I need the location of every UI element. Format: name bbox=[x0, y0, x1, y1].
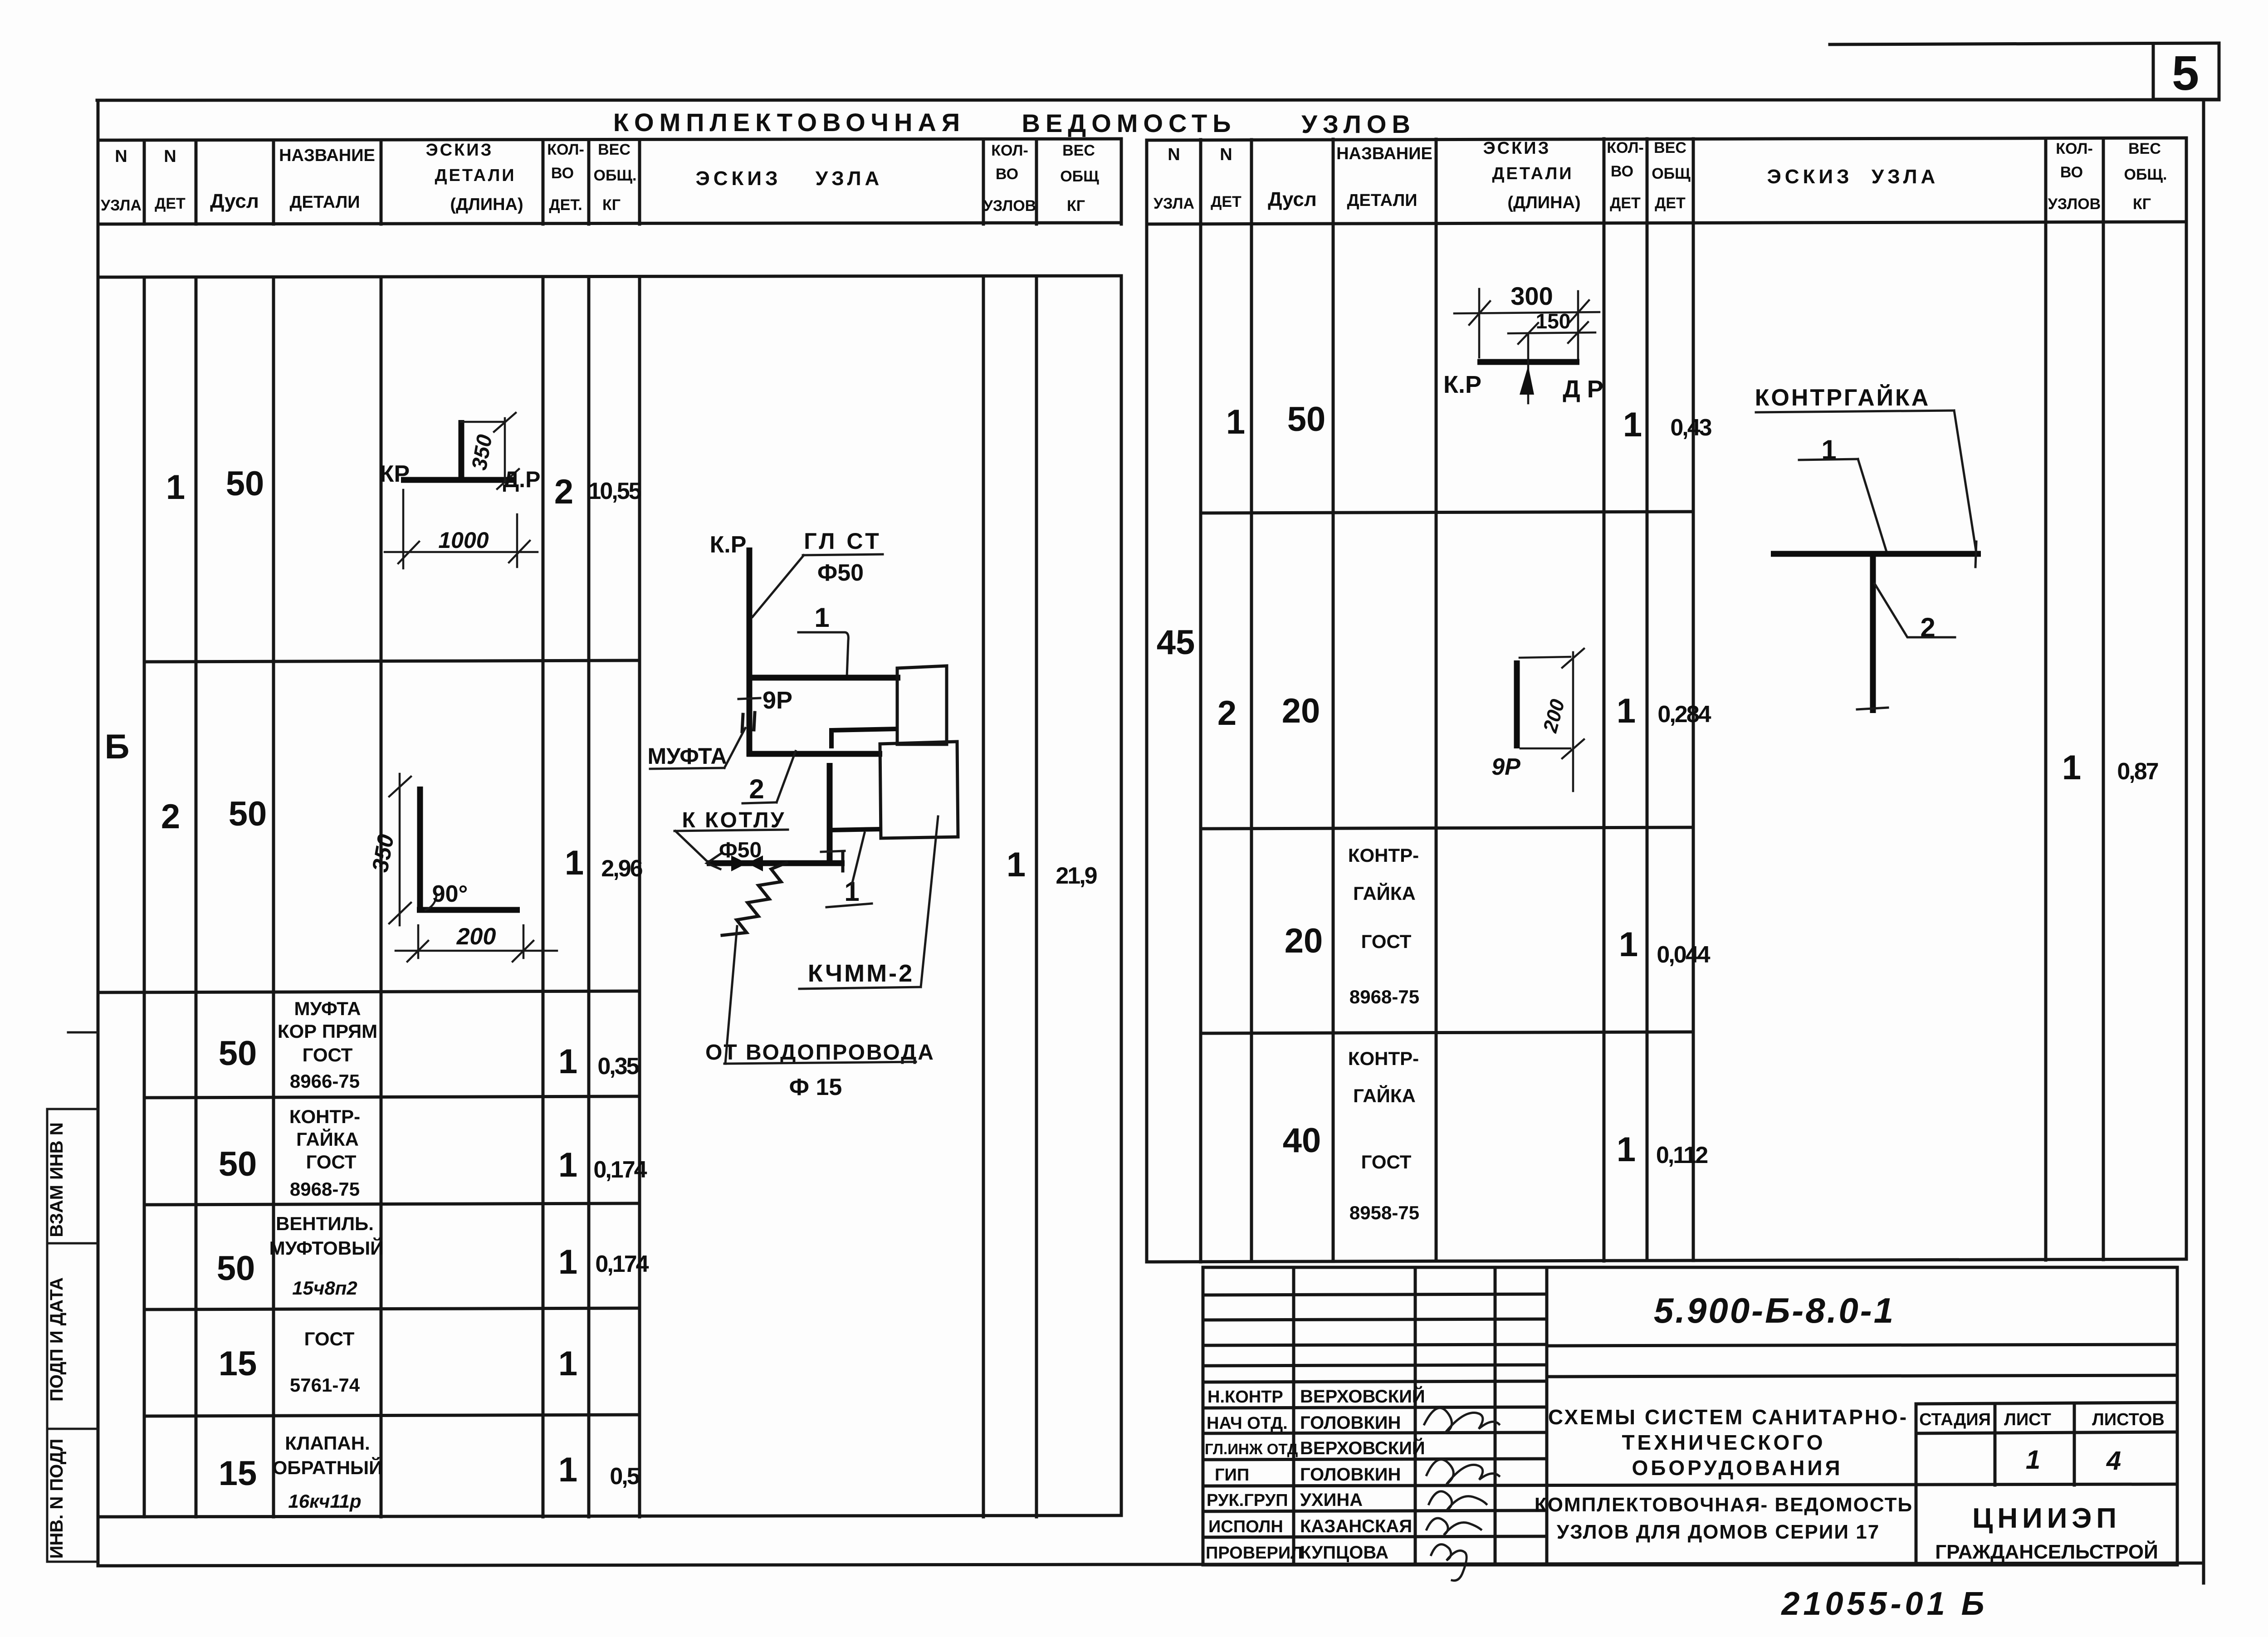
svg-text:1: 1 bbox=[1623, 406, 1642, 444]
svg-text:КГ: КГ bbox=[1067, 197, 1085, 215]
svg-text:1: 1 bbox=[558, 1451, 577, 1489]
rrow1 sketch pipe bbox=[1477, 359, 1579, 365]
svg-text:МУФТОВЫЙ: МУФТОВЫЙ bbox=[269, 1237, 384, 1259]
row1 sketch dim350 ticks bbox=[494, 413, 516, 432]
rrow2 sketch dim ticks bbox=[1562, 649, 1584, 668]
svg-text:N: N bbox=[164, 147, 176, 166]
left table row divider 3 bbox=[144, 1096, 640, 1098]
kontrgaika node1 leader bbox=[1858, 459, 1886, 550]
kontrgaika bottom tick bbox=[1857, 708, 1888, 709]
svg-text:50: 50 bbox=[219, 1145, 257, 1183]
rrow2 sketch top tie bbox=[1520, 657, 1570, 658]
svg-text:50: 50 bbox=[226, 464, 264, 503]
svg-text:4: 4 bbox=[2106, 1446, 2121, 1476]
kontrgaika leader bbox=[1954, 410, 1976, 553]
node 2 leader bbox=[777, 751, 796, 802]
svg-text:ГРАЖДАНСЕЛЬСТРОЙ: ГРАЖДАНСЕЛЬСТРОЙ bbox=[1935, 1540, 2158, 1563]
row2 sketch angle mark bbox=[425, 896, 436, 910]
right table row divider 1 bbox=[1201, 512, 1693, 513]
svg-text:5.900-Б-8.0-1: 5.900-Б-8.0-1 bbox=[1654, 1290, 1895, 1330]
svg-text:5: 5 bbox=[2172, 45, 2199, 100]
svg-text:ГИП: ГИП bbox=[1215, 1466, 1249, 1485]
svg-text:8966-75: 8966-75 bbox=[290, 1070, 360, 1092]
row2 sketch dim200 line bbox=[396, 950, 557, 952]
row2 sketch dim350 line bbox=[399, 774, 401, 925]
svg-text:НАЗВАНИЕ: НАЗВАНИЕ bbox=[279, 146, 375, 165]
svg-text:ДЕТ: ДЕТ bbox=[1655, 195, 1686, 212]
svg-text:2: 2 bbox=[161, 797, 180, 836]
svg-text:ГОСТ: ГОСТ bbox=[1361, 1151, 1412, 1173]
svg-text:УЗЛА: УЗЛА bbox=[816, 167, 883, 190]
svg-text:КАЗАНСКАЯ: КАЗАНСКАЯ bbox=[1300, 1516, 1412, 1536]
node 1 lower leader bbox=[852, 833, 865, 884]
svg-text:ЭСКИЗ: ЭСКИЗ bbox=[1483, 139, 1551, 158]
svg-text:ВЕС: ВЕС bbox=[1062, 142, 1095, 159]
svg-text:0,044: 0,044 bbox=[1657, 942, 1710, 968]
svg-text:ВО: ВО bbox=[996, 166, 1018, 183]
KR riser pipe bbox=[747, 547, 753, 757]
svg-text:ГОЛОВКИН: ГОЛОВКИН bbox=[1300, 1465, 1401, 1485]
svg-text:КГ: КГ bbox=[2133, 195, 2151, 213]
OT VODOPROVODA underline bbox=[724, 1062, 916, 1064]
left table bottom bbox=[98, 1515, 1121, 1517]
svg-text:К.Р: К.Р bbox=[710, 532, 747, 558]
left table row divider 2 bbox=[98, 991, 640, 992]
node 1 lower underline bbox=[826, 904, 872, 907]
kontrgaika node2 leader bbox=[1875, 584, 1955, 637]
upper supply pipe bbox=[747, 675, 900, 681]
row1 sketch dim1000 ticks bbox=[398, 542, 419, 563]
row2 sketch ext left bbox=[417, 925, 420, 958]
kontrgaika vertical pipe bbox=[1870, 554, 1876, 713]
svg-text:ОБЩ.: ОБЩ. bbox=[2124, 166, 2167, 183]
svg-text:ВЕС: ВЕС bbox=[598, 141, 631, 158]
left table row divider 5 bbox=[144, 1308, 640, 1310]
row2 sketch ext right bbox=[523, 925, 525, 958]
svg-text:УЗЛА: УЗЛА bbox=[101, 197, 142, 214]
svg-text:1: 1 bbox=[1226, 403, 1245, 441]
kontrgaika pipe end tick bbox=[1975, 542, 1976, 567]
svg-text:ВЗАМ ИНВ N: ВЗАМ ИНВ N bbox=[47, 1122, 67, 1237]
svg-text:90°: 90° bbox=[432, 881, 468, 907]
svg-text:ГОСТ: ГОСТ bbox=[304, 1328, 355, 1349]
row1 sketch dim350 line bbox=[504, 418, 506, 483]
right table outer top bbox=[1147, 138, 2186, 140]
svg-text:Ф50: Ф50 bbox=[719, 838, 762, 862]
svg-text:ГОСТ: ГОСТ bbox=[306, 1151, 357, 1173]
svg-text:2,96: 2,96 bbox=[601, 855, 642, 882]
svg-text:N: N bbox=[1220, 145, 1232, 164]
title block outer box bbox=[1203, 1267, 2177, 1565]
svg-text:1: 1 bbox=[2062, 748, 2081, 787]
feed pipe left arrow bbox=[707, 853, 722, 869]
svg-text:УЗЛОВ: УЗЛОВ bbox=[1301, 110, 1416, 138]
kontrgaika node1 underline bbox=[1799, 459, 1858, 460]
left edge strip box bbox=[47, 1032, 98, 1562]
svg-text:15: 15 bbox=[219, 1344, 257, 1383]
svg-text:КОЛ-: КОЛ- bbox=[991, 142, 1028, 159]
svg-text:ДЕТ: ДЕТ bbox=[1610, 195, 1641, 212]
svg-text:0,174: 0,174 bbox=[593, 1157, 647, 1183]
boiler feed pipe bbox=[707, 860, 845, 866]
svg-text:НАЗВАНИЕ: НАЗВАНИЕ bbox=[1336, 144, 1432, 163]
GL st underline bbox=[803, 554, 883, 555]
MUFTA leader bbox=[724, 728, 745, 768]
svg-text:ИНВ. N ПОДЛ: ИНВ. N ПОДЛ bbox=[47, 1439, 67, 1559]
valve symbol bbox=[731, 855, 747, 871]
svg-text:16кч11р: 16кч11р bbox=[288, 1490, 361, 1512]
svg-text:ЦНИИЭП: ЦНИИЭП bbox=[1972, 1503, 2121, 1534]
KCHMM-2 underline bbox=[799, 987, 921, 989]
left table header bottom bbox=[98, 223, 1121, 224]
svg-text:21,9: 21,9 bbox=[1056, 863, 1096, 889]
svg-text:0,5: 0,5 bbox=[610, 1463, 639, 1490]
left table column lines header band bbox=[144, 139, 1121, 224]
svg-text:ОБРАТНЫЙ: ОБРАТНЫЙ bbox=[273, 1456, 383, 1478]
svg-text:ВО: ВО bbox=[551, 165, 574, 182]
svg-text:ВЕРХОВСКИЙ: ВЕРХОВСКИЙ bbox=[1300, 1437, 1425, 1458]
svg-text:ВО: ВО bbox=[1611, 163, 1633, 180]
kontrgaika horizontal pipe bbox=[1771, 551, 1981, 557]
svg-text:КОНТРГАЙКА: КОНТРГАЙКА bbox=[1755, 384, 1931, 411]
row2 sketch dim350 ticks bbox=[389, 777, 411, 797]
svg-text:1: 1 bbox=[558, 1243, 577, 1281]
svg-text:УЗЛА: УЗЛА bbox=[1154, 195, 1194, 212]
svg-text:1: 1 bbox=[558, 1146, 577, 1184]
svg-text:40: 40 bbox=[1283, 1121, 1321, 1160]
svg-text:ГЛ.ИНЖ ОТД: ГЛ.ИНЖ ОТД bbox=[1205, 1441, 1298, 1457]
svg-text:ЭСКИЗ: ЭСКИЗ bbox=[426, 141, 494, 160]
svg-text:КОНТР-: КОНТР- bbox=[1348, 845, 1419, 866]
rrow1 sketch dim300 ticks bbox=[1469, 301, 1490, 325]
lower return stub bbox=[831, 829, 881, 830]
row1 sketch extension left bbox=[402, 490, 405, 568]
svg-text:К.Р: К.Р bbox=[1443, 371, 1481, 398]
svg-text:ВО: ВО bbox=[2060, 164, 2083, 181]
rrow1 sketch dim150 line bbox=[1508, 332, 1595, 333]
svg-text:15ч8п2: 15ч8п2 bbox=[292, 1277, 357, 1299]
svg-text:9Р: 9Р bbox=[1491, 754, 1520, 780]
GL st leader bbox=[753, 555, 804, 617]
svg-text:КР: КР bbox=[380, 461, 410, 487]
rrow1 sketch dim300 line bbox=[1454, 312, 1599, 313]
sheet frame right border bbox=[2202, 100, 2205, 1583]
svg-text:0,87: 0,87 bbox=[2117, 758, 2158, 785]
row2 sketch horizontal pipe bbox=[417, 907, 520, 913]
svg-text:КОМПЛЕКТОВОЧНАЯ: КОМПЛЕКТОВОЧНАЯ bbox=[613, 108, 965, 137]
signature squiggle 1 bbox=[1424, 1408, 1499, 1433]
svg-text:1: 1 bbox=[1617, 1130, 1636, 1169]
tick 9R on riser bbox=[738, 698, 760, 699]
svg-text:ИСПОЛН: ИСПОЛН bbox=[1208, 1517, 1283, 1536]
svg-text:КОМПЛЕКТОВОЧНАЯ- ВЕДОМОСТЬ: КОМПЛЕКТОВОЧНАЯ- ВЕДОМОСТЬ bbox=[1535, 1494, 1913, 1516]
svg-text:15: 15 bbox=[219, 1454, 257, 1493]
svg-text:ГАЙКА: ГАЙКА bbox=[1353, 1085, 1416, 1106]
rrow1 sketch ext left bbox=[1478, 289, 1481, 357]
svg-text:ПОДП И ДАТА: ПОДП И ДАТА bbox=[47, 1277, 67, 1402]
svg-text:Дусл: Дусл bbox=[210, 190, 259, 212]
svg-text:350: 350 bbox=[467, 433, 497, 472]
svg-text:УЗЛОВ ДЛЯ ДОМОВ СЕРИИ 17: УЗЛОВ ДЛЯ ДОМОВ СЕРИИ 17 bbox=[1557, 1521, 1880, 1543]
svg-text:КОР ПРЯМ: КОР ПРЯМ bbox=[278, 1021, 377, 1042]
left table row divider 4 bbox=[144, 1203, 640, 1205]
left table row divider 6 bbox=[144, 1415, 640, 1416]
svg-text:10,55: 10,55 bbox=[588, 478, 641, 504]
svg-text:ДЕТАЛИ: ДЕТАЛИ bbox=[1492, 164, 1573, 183]
svg-text:ГОСТ: ГОСТ bbox=[1361, 931, 1412, 952]
sheet frame top border bbox=[97, 100, 2219, 100]
rrow2 sketch bottom tie bbox=[1520, 748, 1570, 750]
left table band line bbox=[98, 276, 1121, 277]
svg-text:УХИНА: УХИНА bbox=[1300, 1490, 1363, 1510]
coupling double dash bbox=[742, 714, 743, 732]
svg-text:8968-75: 8968-75 bbox=[290, 1178, 360, 1200]
row1 sketch tie line bbox=[461, 421, 505, 423]
svg-text:350: 350 bbox=[367, 832, 399, 874]
svg-text:ВЕНТИЛЬ.: ВЕНТИЛЬ. bbox=[276, 1213, 374, 1234]
left table column lines body bbox=[144, 277, 1121, 1517]
svg-text:Ф50: Ф50 bbox=[817, 560, 864, 586]
rrow1 sketch ext right bbox=[1577, 291, 1579, 359]
row2 sketch dim200 ticks bbox=[407, 941, 428, 962]
svg-text:ДЕТ: ДЕТ bbox=[155, 195, 186, 212]
family names column bbox=[1300, 1386, 1425, 1563]
stadia box bbox=[1916, 1402, 2177, 1565]
svg-text:0,174: 0,174 bbox=[595, 1251, 649, 1277]
svg-text:СТАДИЯ: СТАДИЯ bbox=[1919, 1410, 1991, 1429]
row1 sketch pipe bbox=[401, 477, 513, 483]
svg-text:20: 20 bbox=[1285, 922, 1323, 960]
right table row divider 2 bbox=[1201, 827, 1693, 829]
svg-text:2: 2 bbox=[554, 473, 573, 511]
K KOTLU leader arrow bbox=[675, 831, 708, 862]
sheet frame left border bbox=[97, 100, 100, 1566]
OT VODOPROVODA leader bbox=[725, 926, 737, 1064]
title block narrow rows bbox=[1203, 1294, 1547, 1366]
svg-text:КОЛ-: КОЛ- bbox=[2056, 140, 2093, 157]
svg-text:200: 200 bbox=[1539, 697, 1569, 735]
node 1 upper bracket bbox=[798, 632, 848, 677]
svg-text:Д Р: Д Р bbox=[1563, 376, 1603, 403]
MUFTA underline bbox=[650, 768, 724, 769]
svg-text:Н.КОНТР: Н.КОНТР bbox=[1207, 1388, 1283, 1407]
K KOTLU underline bbox=[675, 830, 788, 831]
svg-text:1: 1 bbox=[1619, 925, 1638, 964]
svg-text:ЛИСТ: ЛИСТ bbox=[2004, 1410, 2051, 1429]
KCHMM-2 leader bbox=[921, 816, 938, 987]
svg-text:1: 1 bbox=[558, 1344, 577, 1383]
title block vertical dividers left part bbox=[1294, 1267, 1547, 1565]
row1 sketch dim1000 line bbox=[385, 551, 538, 553]
svg-text:Дусл: Дусл bbox=[1268, 188, 1317, 210]
svg-text:ПРОВЕРИЛ: ПРОВЕРИЛ bbox=[1206, 1544, 1303, 1563]
right table header bottom bbox=[1147, 222, 2186, 224]
svg-text:ЛИСТОВ: ЛИСТОВ bbox=[2092, 1410, 2165, 1429]
svg-text:МУФТА: МУФТА bbox=[294, 998, 361, 1019]
svg-text:50: 50 bbox=[1287, 400, 1326, 439]
svg-text:9Р: 9Р bbox=[763, 687, 792, 714]
kontrgaika underline bbox=[1756, 410, 1954, 412]
svg-text:КЧММ-2: КЧММ-2 bbox=[808, 960, 914, 987]
row1 sketch stub bbox=[459, 420, 464, 482]
svg-text:N: N bbox=[115, 147, 127, 166]
svg-text:1: 1 bbox=[814, 602, 829, 633]
junction tee dash bbox=[821, 851, 845, 852]
rrow2 sketch dim line bbox=[1572, 652, 1574, 791]
svg-text:20: 20 bbox=[1282, 692, 1320, 730]
svg-text:ЭСКИЗ: ЭСКИЗ bbox=[1767, 166, 1853, 188]
svg-text:МУФТА: МУФТА bbox=[647, 743, 727, 769]
svg-text:1000: 1000 bbox=[438, 528, 489, 553]
svg-text:ДЕТАЛИ: ДЕТАЛИ bbox=[1347, 191, 1417, 210]
right table bottom bbox=[1147, 1259, 2186, 1262]
svg-text:ДЕТАЛИ: ДЕТАЛИ bbox=[289, 193, 360, 212]
svg-text:КОНТР-: КОНТР- bbox=[289, 1106, 360, 1127]
signature squiggle 4 bbox=[1427, 1518, 1481, 1535]
svg-text:ГАЙКА: ГАЙКА bbox=[1353, 882, 1416, 904]
right table row divider 3 bbox=[1201, 1032, 1693, 1033]
svg-text:2: 2 bbox=[1217, 694, 1237, 733]
down pipe bbox=[827, 763, 833, 863]
svg-text:ВЕС: ВЕС bbox=[1654, 139, 1686, 156]
svg-text:0,112: 0,112 bbox=[1656, 1142, 1707, 1168]
svg-text:КУПЦОВА: КУПЦОВА bbox=[1300, 1543, 1388, 1563]
row2 sketch vertical pipe bbox=[417, 787, 423, 913]
svg-text:Ф 15: Ф 15 bbox=[789, 1074, 842, 1100]
svg-text:УЗЛОВ: УЗЛОВ bbox=[2048, 195, 2101, 213]
svg-text:1: 1 bbox=[2026, 1445, 2040, 1475]
svg-text:ОБЩ.: ОБЩ. bbox=[594, 167, 637, 184]
rrow1 sketch arrow head bbox=[1520, 366, 1534, 395]
svg-text:ДЕТАЛИ: ДЕТАЛИ bbox=[435, 166, 516, 185]
svg-text:КЛАПАН.: КЛАПАН. bbox=[285, 1432, 370, 1454]
signature squiggle 3 bbox=[1429, 1491, 1486, 1510]
svg-text:0,35: 0,35 bbox=[597, 1053, 639, 1080]
svg-text:КОНТР-: КОНТР- bbox=[1348, 1048, 1419, 1069]
svg-text:50: 50 bbox=[219, 1034, 257, 1073]
signature squiggle 2 bbox=[1427, 1460, 1499, 1484]
svg-text:Д.Р: Д.Р bbox=[503, 467, 541, 492]
svg-text:КГ: КГ bbox=[602, 196, 621, 214]
radiator upper section bbox=[897, 666, 947, 744]
title block name rows bbox=[1203, 1381, 1547, 1537]
right table column lines bbox=[1147, 138, 2186, 1262]
svg-text:1: 1 bbox=[558, 1042, 577, 1081]
title block right horizontals bbox=[1547, 1344, 2177, 1377]
signature squiggle 5 bbox=[1431, 1544, 1466, 1581]
svg-text:ОБОРУДОВАНИЯ: ОБОРУДОВАНИЯ bbox=[1632, 1456, 1843, 1480]
left table outer top bbox=[98, 139, 1121, 140]
svg-text:1: 1 bbox=[1617, 692, 1636, 730]
svg-text:ВЕРХОВСКИЙ: ВЕРХОВСКИЙ bbox=[1300, 1386, 1425, 1407]
svg-text:ДЕТ: ДЕТ bbox=[1211, 193, 1242, 210]
svg-text:ОБЩ: ОБЩ bbox=[1652, 165, 1691, 182]
rrow1 sketch dim150 tick bbox=[1518, 323, 1538, 344]
svg-text:1: 1 bbox=[1007, 845, 1026, 884]
svg-text:ЭСКИЗ: ЭСКИЗ bbox=[695, 167, 781, 190]
svg-text:5761-74: 5761-74 bbox=[290, 1374, 360, 1396]
svg-text:50: 50 bbox=[217, 1249, 255, 1288]
svg-text:50: 50 bbox=[229, 795, 267, 833]
svg-text:Б: Б bbox=[105, 728, 130, 766]
svg-text:(ДЛИНА): (ДЛИНА) bbox=[1507, 193, 1580, 212]
svg-text:ВЕДОМОСТЬ: ВЕДОМОСТЬ bbox=[1022, 109, 1237, 137]
svg-text:21055-01 Б: 21055-01 Б bbox=[1780, 1586, 1988, 1622]
return pipe bbox=[747, 751, 882, 757]
svg-text:(ДЛИНА): (ДЛИНА) bbox=[450, 195, 523, 214]
svg-text:ГЛ СТ: ГЛ СТ bbox=[804, 528, 881, 554]
svg-text:НАЧ ОТД.: НАЧ ОТД. bbox=[1207, 1414, 1288, 1433]
sheet frame bottom border bbox=[98, 1563, 2204, 1566]
svg-text:КОЛ-: КОЛ- bbox=[547, 141, 584, 158]
screwed union zigzag bbox=[722, 863, 787, 935]
svg-text:ВЕС: ВЕС bbox=[2128, 140, 2161, 157]
svg-text:1: 1 bbox=[166, 468, 185, 507]
svg-text:0,284: 0,284 bbox=[1657, 701, 1711, 728]
interconnect jog bbox=[831, 729, 897, 748]
svg-text:150: 150 bbox=[1536, 309, 1571, 333]
svg-text:РУК.ГРУП: РУК.ГРУП bbox=[1207, 1491, 1288, 1510]
svg-text:ОБЩ: ОБЩ bbox=[1060, 168, 1099, 185]
title block thick middle divider bbox=[1203, 1484, 2177, 1486]
svg-text:ТЕХНИЧЕСКОГО: ТЕХНИЧЕСКОГО bbox=[1622, 1431, 1825, 1454]
svg-text:ДЕТ.: ДЕТ. bbox=[549, 196, 582, 214]
svg-text:45: 45 bbox=[1157, 623, 1195, 662]
page number box bbox=[2153, 44, 2219, 99]
svg-text:0,43: 0,43 bbox=[1670, 415, 1711, 441]
row1 sketch extension right bbox=[516, 514, 518, 567]
top-right edge line bbox=[1830, 43, 2219, 44]
node 2 underline bbox=[743, 802, 777, 803]
svg-text:2: 2 bbox=[749, 774, 764, 804]
rrow2 sketch pipe bbox=[1514, 660, 1520, 748]
rrow1 sketch arrow line bbox=[1527, 333, 1530, 403]
svg-text:8968-75: 8968-75 bbox=[1349, 986, 1419, 1007]
svg-text:8958-75: 8958-75 bbox=[1349, 1202, 1419, 1223]
svg-text:СХЕМЫ СИСТЕМ САНИТАРНО-: СХЕМЫ СИСТЕМ САНИТАРНО- bbox=[1548, 1405, 1908, 1429]
svg-text:КОЛ-: КОЛ- bbox=[1607, 139, 1644, 156]
radiator lower section bbox=[880, 742, 958, 838]
svg-text:1: 1 bbox=[565, 844, 584, 882]
svg-text:ГАЙКА: ГАЙКА bbox=[296, 1128, 359, 1150]
svg-text:УЗЛОВ: УЗЛОВ bbox=[983, 197, 1036, 215]
svg-text:ГОСТ: ГОСТ bbox=[303, 1044, 353, 1065]
svg-text:ГОЛОВКИН: ГОЛОВКИН bbox=[1300, 1413, 1401, 1433]
role names column bbox=[1205, 1388, 1303, 1563]
pipe end dash bbox=[841, 852, 845, 871]
left table row divider 1 bbox=[144, 660, 640, 662]
svg-text:300: 300 bbox=[1510, 282, 1553, 310]
svg-text:УЗЛА: УЗЛА bbox=[1872, 166, 1939, 188]
svg-text:N: N bbox=[1168, 145, 1180, 164]
svg-text:200: 200 bbox=[456, 924, 496, 950]
